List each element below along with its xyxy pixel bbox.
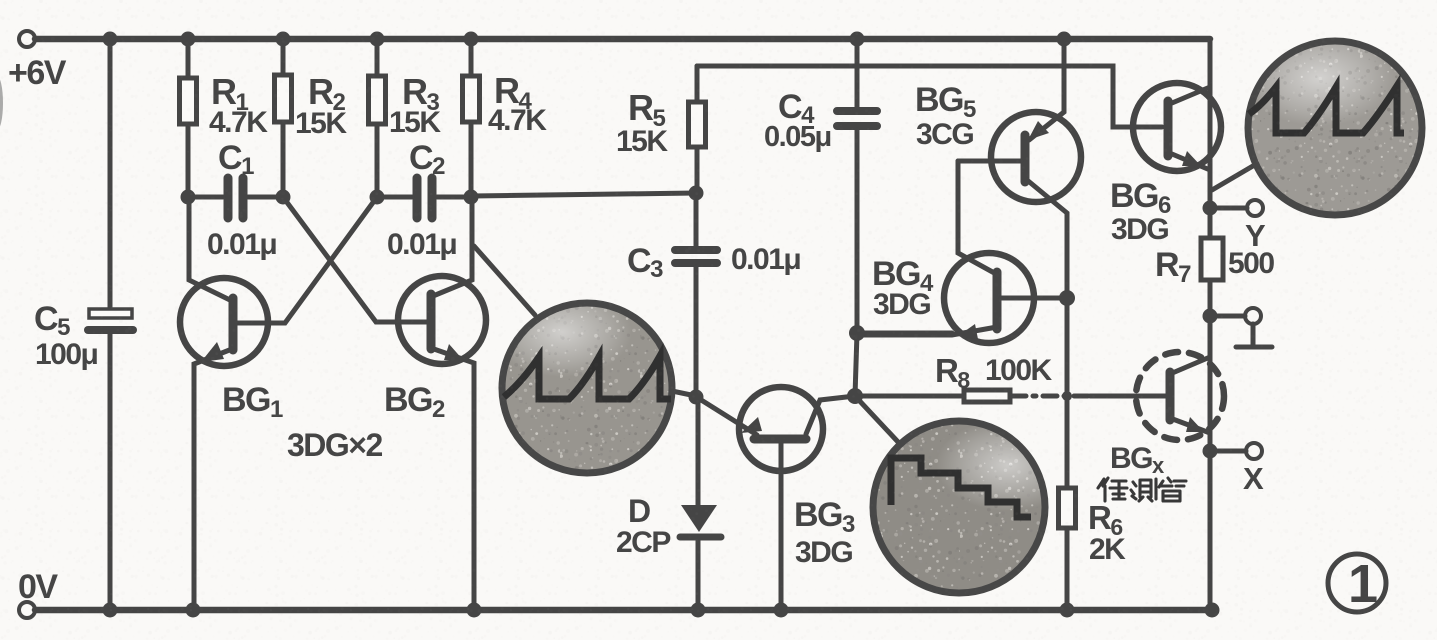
node C4 rail [850,32,865,47]
node X [1203,444,1218,459]
node R6 top [1062,391,1072,401]
node C5 top rail [103,32,118,47]
terminal mid [1245,308,1261,324]
node bus ground [1205,603,1220,618]
transistor BG4 [857,161,1067,343]
resistor R5 [689,102,706,147]
node C4 bottom [849,325,865,341]
wire X branch [1210,449,1246,454]
node BG3 collector [847,388,863,404]
transistor BG3 [698,387,855,610]
scope inset 1 sawtooth [492,287,676,477]
resistor R4 [463,76,480,122]
transistor BG6 [1133,83,1221,171]
node Y [1203,201,1218,216]
terminal +6V [19,31,35,47]
scan smudge left edge [0,76,3,130]
label daiceguan (Chinese: tube under test) [1098,478,1186,501]
transistor BG1 [180,197,377,610]
resistor R7 [1201,238,1223,280]
node BG5 emitter rail [1057,32,1072,47]
node R3 rail [370,32,385,47]
wire C5 branch [108,39,113,610]
wire upper horizontal to BG6 base [697,66,1162,127]
terminal X [1246,443,1262,459]
capacitor C2 [377,178,471,218]
resistor R3 [369,76,386,124]
resistor R1 [180,78,197,124]
scope inset 2 sawtooth [1245,30,1426,219]
wire Y branch [1210,206,1247,211]
node C3 bottom sweep [689,390,704,405]
wire R3 column [375,39,380,196]
diode D 2CP [680,397,721,610]
wire scope1 link to sweep node [672,391,696,396]
node R5 bottom [689,186,704,201]
node R4 rail [464,32,479,47]
ground symbol [1236,324,1272,347]
node R2 rail [276,32,291,47]
node BG4 base [1059,290,1075,306]
resistor R8 [964,390,1010,402]
node R1 rail [181,32,196,47]
wire right vertical bus [1208,39,1213,610]
wire R8 dash-dot section [1012,394,1090,399]
node ground tap [1203,309,1218,324]
resistor R6 [1059,488,1076,610]
wire C4 node to BG4 emitter [857,331,952,336]
capacitor C5 [88,309,133,330]
wire R5 top branch [695,66,700,193]
capacitor C1 [188,178,283,218]
transistor BG2 [283,197,486,610]
node D ground [691,603,706,618]
wire R2 column [281,39,286,196]
wire bottom 0V rail [35,607,1212,614]
node R6 ground [1060,603,1075,618]
scope inset 3 staircase [870,418,1080,598]
wire pointer Y to scope2 [1212,163,1258,190]
node C2 left [370,190,385,205]
wire R4 column [469,39,474,196]
wire pointer to scope3 [855,396,899,443]
wire R1 column [186,39,191,196]
wire R8 line to BGx base [1090,394,1166,399]
wire top +6V rail [35,36,1210,43]
wire middle terminal branch [1210,314,1245,319]
node C2 right [464,190,479,205]
terminal 0V [19,602,35,618]
transistor BG5 [958,39,1081,488]
resistor R2 [275,75,292,122]
transistor BGx (device under test, dashed) [1136,352,1224,440]
node C1 right [276,190,291,205]
wire pointer BG2 collector to scope1 [474,246,535,315]
label circled figure number 1 [1328,554,1386,614]
node C1 left [181,190,196,205]
node BG1 emitter ground [186,603,201,618]
node BG2 emitter ground [467,603,482,618]
capacitor C3 [675,193,717,397]
wire C2 node to R5 bottom [471,193,696,196]
terminal Y [1247,200,1263,216]
node BG3 base ground [774,603,789,618]
capacitor C4 [837,39,877,396]
node C5 ground [103,603,118,618]
wire R8 line left [855,394,964,399]
